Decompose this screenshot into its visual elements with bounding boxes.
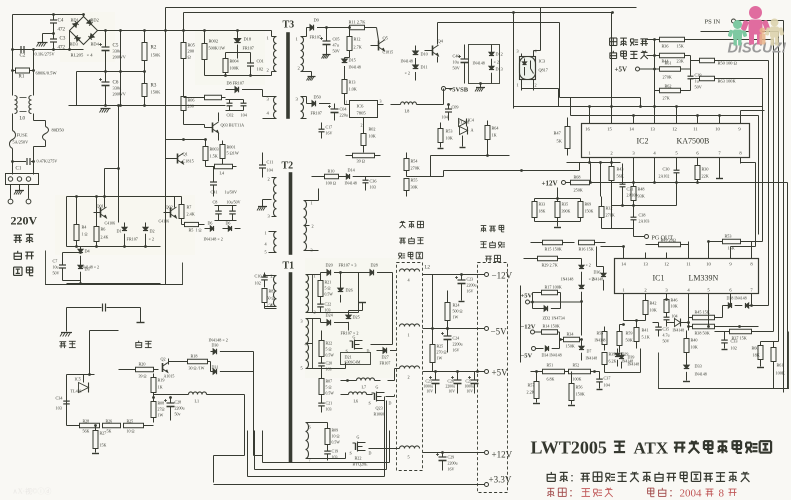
svg-text:R19: R19 <box>158 378 165 383</box>
resistor R003 <box>203 140 219 167</box>
diode D11 <box>401 58 428 81</box>
svg-text:：: ： <box>570 474 580 485</box>
svg-text:100 Ω: 100 Ω <box>326 181 336 186</box>
svg-text:104: 104 <box>604 383 611 388</box>
wire <box>590 107 765 118</box>
wire <box>433 275 465 329</box>
resistor R002 <box>202 31 225 76</box>
resistor R60 <box>752 342 765 368</box>
svg-text:5: 5 <box>301 366 303 371</box>
resistor R59 <box>617 325 633 353</box>
svg-text:R33: R33 <box>539 202 546 207</box>
resistor R40 <box>684 331 698 361</box>
resistor R24 <box>445 291 463 330</box>
inductor L1 <box>154 359 245 404</box>
svg-text:R40: R40 <box>691 338 698 343</box>
optocoupler IC3 <box>517 49 548 88</box>
capacitor C10 <box>255 273 268 288</box>
svg-text:10 Ω: 10 Ω <box>332 434 340 439</box>
Y-cap hot-cold <box>67 304 145 332</box>
capacitor C22 <box>317 302 331 313</box>
wire <box>612 182 677 207</box>
svg-text:30 Ω /1W: 30 Ω /1W <box>189 366 205 371</box>
svg-text:C38: C38 <box>639 213 646 218</box>
resistor R25b <box>430 329 447 372</box>
svg-text:−12V: −12V <box>521 324 536 331</box>
svg-text:T3: T3 <box>283 20 295 31</box>
wire <box>67 245 161 248</box>
svg-text:C29: C29 <box>448 455 455 460</box>
svg-text:R55: R55 <box>411 178 418 183</box>
svg-text:10u/50V: 10u/50V <box>227 200 241 205</box>
capacitor C4 <box>50 15 66 34</box>
capacitor C29 <box>436 453 458 472</box>
svg-text:S: S <box>369 401 371 406</box>
terminal +3.3V <box>214 475 512 487</box>
svg-text:D14: D14 <box>348 168 356 173</box>
svg-text:472: 472 <box>58 28 66 33</box>
svg-text:22K: 22K <box>702 174 709 179</box>
svg-text:50V: 50V <box>333 49 340 54</box>
svg-text:0.47K/275V: 0.47K/275V <box>37 159 58 164</box>
svg-text:103: 103 <box>56 406 62 411</box>
resistor R30 <box>695 164 709 182</box>
svg-text:+3.3V: +3.3V <box>489 475 512 485</box>
capacitor C11 <box>259 153 274 178</box>
resistor R001 <box>220 141 239 165</box>
svg-text:39 Ω: 39 Ω <box>139 374 147 379</box>
svg-text:R17 100K: R17 100K <box>545 285 562 290</box>
diode D3 <box>78 256 90 284</box>
svg-text:R21: R21 <box>325 280 332 285</box>
capacitor C1 <box>11 158 57 172</box>
svg-text:IN4148: IN4148 <box>592 278 604 282</box>
svg-text:C09: C09 <box>452 105 459 110</box>
wire <box>263 431 390 463</box>
resistor R61b <box>771 342 785 389</box>
inductor L6 <box>341 392 373 404</box>
svg-text:10K: 10K <box>671 304 678 309</box>
svg-text:BD2: BD2 <box>91 18 99 23</box>
svg-text:C1815: C1815 <box>383 50 394 55</box>
bridge rectifier BD1-BD4 <box>70 17 100 58</box>
svg-text:6: 6 <box>309 425 311 430</box>
wire <box>120 31 122 106</box>
box lowerright <box>659 332 789 389</box>
diode D34 <box>542 340 562 358</box>
svg-text:D26: D26 <box>346 288 353 293</box>
svg-text:Q817: Q817 <box>539 68 548 73</box>
wire <box>729 300 753 307</box>
svg-text:11: 11 <box>686 262 691 267</box>
wire compbox <box>520 286 522 363</box>
svg-text:1.0K: 1.0K <box>349 87 357 92</box>
transformer T1 <box>283 261 295 463</box>
label 220V AC mains <box>11 214 38 276</box>
transistor Q03 <box>184 113 245 141</box>
resistor R29 <box>524 256 582 267</box>
winding T2-R <box>304 201 314 253</box>
svg-text:150K: 150K <box>151 90 162 95</box>
svg-text:104: 104 <box>672 314 678 319</box>
capacitor C02 <box>226 100 248 118</box>
svg-text:IC2: IC2 <box>637 137 649 146</box>
IC2 top pins 16-9 <box>585 118 741 132</box>
resistor R08b <box>151 398 165 423</box>
ground <box>100 109 111 113</box>
resistor R52 <box>565 363 600 382</box>
svg-text:R42: R42 <box>650 301 657 306</box>
svg-text:12: 12 <box>672 127 677 132</box>
diode D6b <box>204 221 241 242</box>
resistor R21 <box>318 275 333 303</box>
svg-text:R28: R28 <box>83 419 90 424</box>
svg-text:5 Ω: 5 Ω <box>325 286 331 291</box>
svg-text:10K: 10K <box>650 308 657 313</box>
wire <box>205 72 272 77</box>
svg-text:× 4: × 4 <box>87 53 94 58</box>
svg-text:16V: 16V <box>453 348 460 353</box>
capacitor C19 <box>324 449 338 461</box>
svg-text:R25: R25 <box>437 344 444 349</box>
svg-text:C8: C8 <box>213 200 218 205</box>
label cold gnd <box>135 341 151 348</box>
svg-text:C31: C31 <box>627 187 634 192</box>
svg-text:R53: R53 <box>446 129 453 134</box>
svg-text:10u: 10u <box>53 265 59 270</box>
svg-text:D7: D7 <box>587 349 592 354</box>
diode D28 <box>359 263 393 276</box>
label DC output <box>480 225 505 261</box>
svg-text:6.8K: 6.8K <box>547 377 555 382</box>
resistor R36 <box>647 37 774 48</box>
capacitor C23 <box>455 275 477 296</box>
box sec3 <box>313 453 346 459</box>
svg-text:+5V: +5V <box>521 293 533 300</box>
svg-text:IN4148: IN4148 <box>349 65 361 70</box>
terminal -5V in <box>521 347 544 360</box>
capacitor C01 <box>238 53 264 76</box>
wire <box>11 50 35 96</box>
svg-text:IN4148: IN4148 <box>628 363 640 367</box>
svg-text:150K: 150K <box>566 344 575 349</box>
svg-text:R51: R51 <box>547 363 554 368</box>
svg-text:FR107 × 3: FR107 × 3 <box>339 263 357 268</box>
IC IC6 7805 <box>345 99 384 128</box>
resistor R4 <box>74 217 88 247</box>
svg-text:1W: 1W <box>437 356 443 361</box>
svg-text:100K: 100K <box>573 377 582 382</box>
resistor R53 <box>709 234 752 251</box>
diode D9 <box>307 18 350 40</box>
svg-text:R07: R07 <box>326 379 333 384</box>
svg-text:C20: C20 <box>326 361 333 366</box>
wire <box>612 164 724 183</box>
svg-text:100K: 100K <box>776 371 785 376</box>
wire <box>255 401 387 470</box>
svg-text:5 Ω: 5 Ω <box>326 347 332 352</box>
svg-text:R52: R52 <box>573 363 580 368</box>
winding T3-3 <box>263 97 277 119</box>
svg-text:C30: C30 <box>663 167 670 172</box>
wire <box>597 247 604 267</box>
svg-text:56K: 56K <box>83 429 90 434</box>
svg-text:2200u: 2200u <box>446 385 456 389</box>
svg-text:10K: 10K <box>691 345 698 350</box>
svg-text:C4106: C4106 <box>159 219 170 224</box>
svg-text:1 Ω: 1 Ω <box>196 228 202 233</box>
wire <box>214 456 245 483</box>
wire <box>371 273 400 381</box>
resistor R12 <box>347 26 362 57</box>
transformer T2 <box>282 161 294 255</box>
svg-text:C01: C01 <box>257 59 264 64</box>
svg-text:L7: L7 <box>362 385 367 390</box>
resistor R16 <box>579 240 606 251</box>
svg-text:1: 1 <box>346 100 348 105</box>
capacitor C28 <box>164 396 185 420</box>
author line <box>547 488 736 500</box>
capacitor C39 <box>688 56 702 91</box>
svg-text:D15: D15 <box>349 58 356 63</box>
transistor Q4 <box>425 23 444 63</box>
svg-text:R5: R5 <box>189 228 194 233</box>
note line <box>547 472 750 485</box>
resistor R39 <box>602 352 617 373</box>
svg-text:IC6: IC6 <box>357 104 365 109</box>
svg-text:A1015: A1015 <box>164 374 175 379</box>
svg-text:18K: 18K <box>539 209 546 214</box>
inductor L7 <box>341 378 381 390</box>
wire <box>401 484 423 486</box>
wire <box>601 240 752 252</box>
ground <box>307 72 316 81</box>
diode D14 <box>339 168 366 186</box>
svg-text:PS IN: PS IN <box>705 19 721 26</box>
svg-text:R004: R004 <box>230 59 240 64</box>
svg-text:50v: 50v <box>175 412 181 417</box>
svg-text:104: 104 <box>442 115 449 120</box>
capacitor C05 <box>320 28 340 59</box>
svg-text:R56: R56 <box>576 385 583 390</box>
winding T3-sec2 <box>296 97 307 119</box>
svg-text:680K/0.5W: 680K/0.5W <box>36 71 58 76</box>
svg-text:R53: R53 <box>725 234 732 239</box>
terminal <box>8 185 31 204</box>
svg-text:14: 14 <box>629 127 634 132</box>
capacitor C5 <box>99 31 126 77</box>
svg-text:D33: D33 <box>695 364 702 369</box>
wire <box>33 161 35 175</box>
wire <box>310 189 319 251</box>
svg-text:1000u: 1000u <box>424 385 434 389</box>
diode D13 <box>473 59 503 84</box>
svg-text:C4106: C4106 <box>105 221 116 226</box>
svg-text:L0: L0 <box>20 117 26 122</box>
transformer T3 <box>283 20 295 119</box>
svg-text:BD3: BD3 <box>70 42 79 47</box>
svg-text:D36: D36 <box>594 270 601 275</box>
transistor Q02 <box>159 205 177 224</box>
diode D25 <box>341 303 367 336</box>
terminal +5V out <box>423 368 509 378</box>
resistor R10 <box>312 169 339 186</box>
diode Dx2b <box>579 272 584 341</box>
box <box>469 45 500 84</box>
svg-text:R22: R22 <box>326 341 333 346</box>
svg-text:27K: 27K <box>663 96 670 101</box>
svg-text:R11 2.7K: R11 2.7K <box>349 20 367 25</box>
svg-text:3: 3 <box>301 319 303 324</box>
resistor R22 <box>319 331 334 363</box>
svg-text:270K: 270K <box>663 75 672 80</box>
svg-text:C22: C22 <box>325 302 332 307</box>
capacitor C27 <box>465 372 479 394</box>
svg-text:D21: D21 <box>345 355 352 360</box>
wire <box>570 98 572 116</box>
wire <box>11 48 83 51</box>
terminal -5V <box>423 327 508 337</box>
svg-text:× 2: × 2 <box>586 263 591 268</box>
svg-text:D6: D6 <box>226 221 231 226</box>
resistor C17grp <box>319 123 333 139</box>
ground hot <box>59 333 75 349</box>
svg-text:IN4148: IN4148 <box>401 59 413 64</box>
resistor R15 <box>531 240 575 251</box>
svg-text:C05: C05 <box>333 37 340 42</box>
svg-text:+5V: +5V <box>615 66 628 74</box>
svg-text:R30: R30 <box>702 167 709 172</box>
svg-text:2.7K: 2.7K <box>354 45 362 50</box>
capacitor C33 <box>721 332 737 351</box>
svg-text:D50: D50 <box>314 95 321 100</box>
svg-text:R48: R48 <box>638 187 645 192</box>
resistor R64 <box>485 121 499 156</box>
svg-text:R54: R54 <box>411 159 419 164</box>
svg-text:7: 7 <box>309 458 311 463</box>
svg-text:13: 13 <box>643 262 648 267</box>
resistor R05 <box>181 31 196 97</box>
wire bus <box>571 114 744 117</box>
svg-text:2200u: 2200u <box>467 283 477 288</box>
capacitor C3 <box>50 34 66 51</box>
resistor R0h <box>184 95 226 100</box>
capacitor C8 <box>213 200 241 221</box>
capacitor C37 <box>596 372 610 390</box>
svg-text:IN4148 × 2: IN4148 × 2 <box>209 338 228 343</box>
svg-text:× 2: × 2 <box>149 237 155 242</box>
ground <box>37 32 55 46</box>
ground <box>14 185 24 195</box>
terminal +5Vc <box>521 293 582 305</box>
svg-text:200: 200 <box>188 49 195 54</box>
svg-text:Q1: Q1 <box>183 152 188 157</box>
svg-text:R41: R41 <box>642 328 649 333</box>
wire HV line <box>67 104 182 246</box>
svg-text:10V: 10V <box>449 390 456 394</box>
wire <box>248 397 385 477</box>
resistor R3 <box>142 84 161 106</box>
wire <box>522 84 534 91</box>
svg-text:15K: 15K <box>677 44 684 49</box>
svg-text:Q5: Q5 <box>383 36 389 41</box>
svg-text:R69: R69 <box>585 202 592 207</box>
svg-text:1W: 1W <box>453 315 459 320</box>
svg-text:C24: C24 <box>453 336 460 341</box>
diode D24 <box>313 313 349 326</box>
svg-text:FUSE: FUSE <box>17 133 28 138</box>
svg-text:R57: R57 <box>528 383 535 388</box>
box connector dashed <box>478 263 508 493</box>
svg-text:TL431: TL431 <box>459 120 470 125</box>
resistor R06 <box>181 97 194 125</box>
capacitor C6 <box>99 77 126 107</box>
resistor R49 <box>646 238 689 247</box>
resistor R6 <box>94 219 109 247</box>
svg-text:15: 15 <box>607 127 612 132</box>
svg-text:IC3: IC3 <box>539 59 546 64</box>
svg-text:G: G <box>357 435 360 440</box>
svg-text:10V: 10V <box>467 390 474 394</box>
svg-text:Q4: Q4 <box>438 39 444 44</box>
svg-text:S30SC4M: S30SC4M <box>345 361 361 365</box>
resistor R42 <box>643 300 657 321</box>
resistor R48 <box>631 164 645 215</box>
IC TL431 A <box>459 120 474 148</box>
wire <box>612 206 634 229</box>
terminal +12V out <box>423 450 513 460</box>
transistor Q1 <box>166 152 194 165</box>
inductor L4 <box>206 164 237 175</box>
svg-text:L2: L2 <box>425 266 431 271</box>
IC IC2 KA7500B <box>582 124 750 158</box>
capacitor C40 <box>453 45 469 84</box>
resistor R18 <box>169 354 211 371</box>
svg-text:FR107: FR107 <box>380 361 391 366</box>
svg-text:C11: C11 <box>267 160 274 165</box>
svg-text:150K: 150K <box>585 209 594 214</box>
wire <box>165 31 167 285</box>
svg-text:15K: 15K <box>100 443 107 448</box>
svg-text:R14 150K: R14 150K <box>543 324 560 329</box>
winding T3-sec1 <box>296 37 307 72</box>
svg-text:D8 FR107: D8 FR107 <box>227 81 245 86</box>
svg-text:IC1: IC1 <box>653 274 665 283</box>
svg-text:23K: 23K <box>677 59 684 64</box>
svg-text:R61: R61 <box>777 363 784 368</box>
svg-text:R55: R55 <box>597 331 604 336</box>
svg-text:0.5W: 0.5W <box>326 354 335 358</box>
winding T1-R2 <box>301 319 313 371</box>
svg-text:RL205: RL205 <box>71 53 84 58</box>
svg-text:2.4K: 2.4K <box>101 235 109 240</box>
svg-text:+12V: +12V <box>492 450 513 460</box>
svg-text:80D50: 80D50 <box>52 128 65 133</box>
resistor R1 <box>13 68 58 80</box>
svg-text:16V: 16V <box>467 289 474 294</box>
svg-text:+12V: +12V <box>542 180 558 188</box>
resistor R09 <box>313 423 341 449</box>
wire mid rail <box>69 70 226 107</box>
svg-text:C17: C17 <box>326 125 333 130</box>
svg-text:150K: 150K <box>151 53 162 58</box>
svg-text:R08: R08 <box>158 401 165 406</box>
svg-text:R49 20Ω: R49 20Ω <box>661 238 676 243</box>
svg-text:C21: C21 <box>326 401 333 406</box>
mosfet Q22 <box>350 435 372 467</box>
svg-text:1: 1 <box>408 333 410 338</box>
svg-text:× 2: × 2 <box>494 60 500 65</box>
